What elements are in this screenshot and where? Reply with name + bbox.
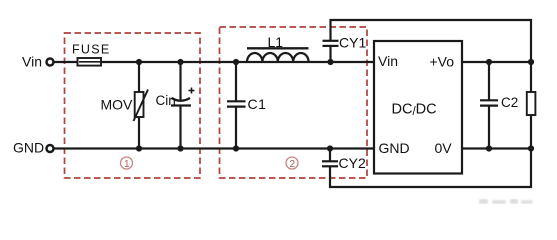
dashed box 2 [220,27,368,178]
terminal Vin [47,59,54,66]
svg-text:Cin: Cin [156,93,176,108]
converter U1 DC/DC [374,41,462,174]
svg-text:+Vo: +Vo [430,54,455,70]
terminal GND [47,145,54,152]
svg-text:FUSE: FUSE [72,43,111,57]
svg-text:GND: GND [13,140,44,156]
wire 0V rail [462,147,531,149]
node dot Cin bottom [177,145,183,151]
node dot Cin top [177,59,183,65]
wire top link CY1 to right [331,20,532,62]
svg-text:C2: C2 [501,95,518,110]
svg-text:0V: 0V [435,140,453,156]
wire bottom link CY2 to right [330,149,531,188]
capacitor C1 [227,62,266,149]
node dot load top [528,59,534,65]
label 1 circled [121,157,133,170]
fuse F1 [72,43,111,66]
resistor load [527,92,536,115]
svg-text:CY1: CY1 [339,35,366,51]
svg-text:MOV: MOV [101,97,134,113]
wire +Vo rail [462,61,531,63]
svg-text:GND: GND [379,140,410,156]
node dot C1 bottom [233,145,239,151]
node dot C2 bottom [486,145,492,151]
capacitor CY2 [322,149,366,172]
svg-text:CY2: CY2 [339,155,366,171]
capacitor CY1 [323,35,367,63]
svg-text:1: 1 [124,159,130,170]
wire top rail Vin [54,61,374,63]
faint cropped watermark smudge [479,199,533,204]
inductor L1 [247,34,309,62]
svg-text:L1: L1 [268,34,284,50]
node dot CY1 [327,59,333,65]
node dot C2 top [486,59,492,65]
node dot load bottom [528,145,534,151]
node dot MOV top [136,59,142,65]
wire load branch [530,62,532,149]
label 2 circled [286,157,298,170]
capacitor Cin [156,62,195,149]
svg-text:2: 2 [290,159,296,170]
node dot C1 top [233,59,239,65]
svg-text:Vin: Vin [22,53,42,69]
varistor MOV [101,62,149,149]
dashed box 1 [65,33,201,178]
node dot MOV bottom [136,145,142,151]
svg-text:Vin: Vin [378,53,398,69]
wire bottom rail GND [54,147,374,149]
node dot CY2 [327,145,333,151]
capacitor C2 [480,62,518,149]
svg-text:C1: C1 [248,96,267,112]
